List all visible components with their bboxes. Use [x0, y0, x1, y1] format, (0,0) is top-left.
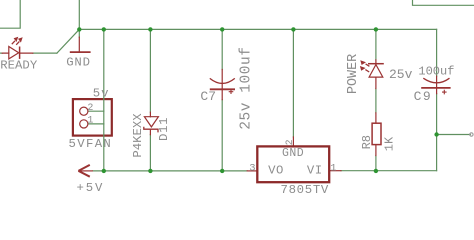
svg-text:C7: C7 — [200, 89, 216, 104]
svg-text:P4KEXX: P4KEXX — [131, 113, 145, 158]
svg-text:POWER: POWER — [346, 54, 361, 94]
svg-text:2: 2 — [87, 103, 93, 114]
svg-text:5VFAN: 5VFAN — [69, 137, 113, 151]
svg-text:GND: GND — [282, 147, 304, 160]
svg-text:2: 2 — [285, 139, 296, 145]
svg-text:GND: GND — [66, 55, 91, 69]
svg-text:25v 100uf: 25v 100uf — [238, 47, 254, 130]
svg-text:3: 3 — [249, 163, 255, 175]
svg-text:+5V: +5V — [77, 181, 105, 195]
svg-text:1: 1 — [87, 115, 93, 126]
svg-text:25v: 25v — [389, 67, 413, 82]
svg-text:100uf: 100uf — [418, 65, 454, 79]
svg-text:VO: VO — [268, 164, 284, 178]
svg-text:R8: R8 — [360, 135, 374, 149]
svg-text:5v: 5v — [93, 87, 110, 101]
svg-text:1: 1 — [330, 163, 336, 175]
svg-text:C9: C9 — [414, 89, 433, 104]
svg-text:7805TV: 7805TV — [281, 183, 329, 197]
svg-text:D11: D11 — [157, 117, 171, 141]
svg-text:READY: READY — [0, 59, 38, 73]
svg-text:VI: VI — [307, 164, 323, 178]
svg-text:1K: 1K — [382, 136, 396, 151]
